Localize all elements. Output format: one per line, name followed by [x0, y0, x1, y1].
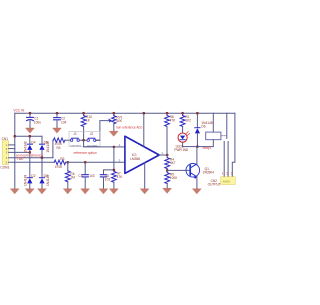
trimpot RV1 50K: [109, 113, 123, 131]
junction diode column1 top: [29, 135, 32, 138]
wire jumper node to pin2: [84, 140, 114, 147]
svg-text:50K: 50K: [116, 119, 123, 123]
LED LED1 PWR IND: [174, 131, 189, 152]
svg-text:D6: D6: [201, 125, 205, 129]
wire RV1 wiper to J2: [96, 121, 110, 141]
wire op-amp output: [159, 151, 167, 155]
junction pin8 on VCC rail: [143, 112, 146, 115]
wire pin4 V-: [144, 163, 146, 189]
junction R10 on VCC rail: [82, 112, 85, 115]
capacitor C2 104: [54, 113, 67, 128]
wire pin1: [9, 144, 15, 146]
svg-text:4K7: 4K7: [170, 161, 176, 165]
junction relay rail node: [196, 145, 199, 148]
resistor R4 470K: [53, 138, 70, 158]
svg-text:1: 1: [222, 172, 224, 176]
ground left column: [11, 189, 20, 194]
svg-text:AK500: AK500: [223, 180, 231, 183]
junction R7 node: [113, 169, 116, 172]
svg-text:J2: J2: [90, 132, 94, 136]
svg-text:1N4148: 1N4148: [24, 175, 28, 186]
capacitor C4 103: [100, 170, 114, 189]
junction R8 on VCC rail: [166, 112, 169, 115]
diode D4 1N4148: [24, 136, 36, 152]
diode D2 1N4148 lower: [24, 152, 36, 188]
svg-text:1M: 1M: [70, 176, 75, 180]
connector CN2 OUTPUT: [208, 177, 236, 187]
svg-text:D2: D2: [31, 174, 35, 178]
ground under op-amp: [140, 189, 149, 194]
wire ground rail y136: [15, 135, 42, 137]
svg-text:CON3: CON3: [0, 166, 9, 170]
label non reference ADJ: [116, 126, 143, 130]
box reference option: [69, 131, 100, 146]
junction pin2 node: [113, 146, 116, 149]
resistor R10 1K: [81, 113, 92, 140]
ground under R5: [163, 188, 172, 193]
resistor R7 47K: [112, 170, 124, 189]
label reference option: [74, 151, 97, 155]
ground under D3: [38, 189, 47, 194]
ground under C2: [53, 128, 62, 133]
junction jumper node: [82, 139, 85, 142]
junction output node: [166, 154, 169, 157]
wire pin4 to D5 and R4: [9, 157, 53, 159]
junction D6 on VCC rail: [196, 112, 199, 115]
svg-text:1K2: 1K2: [185, 119, 191, 123]
svg-text:100u: 100u: [34, 121, 41, 125]
wire pin2 into op-amp: [114, 143, 125, 147]
resistor R4 4K7 output: [165, 155, 176, 170]
capacitor C3 103: [78, 162, 94, 189]
svg-text:C3: C3: [78, 174, 82, 178]
resistor R3 470K: [54, 157, 68, 169]
svg-text:R3: R3: [60, 157, 64, 161]
label contact pins: [222, 172, 233, 176]
wire pin2: [9, 148, 15, 150]
ground under R7: [110, 189, 119, 194]
svg-text:J1: J1: [73, 132, 77, 136]
svg-text:1: 1: [161, 151, 163, 155]
wire base: [167, 169, 190, 171]
resistor R5 100K: [165, 170, 178, 188]
junction left column on gnd rail: [14, 135, 17, 138]
op-amp U1 LM358: [125, 136, 159, 173]
ground under C1: [26, 128, 35, 133]
junction pin3 node: [29, 151, 32, 154]
wire right rail drop: [232, 113, 235, 176]
ground under C4: [99, 189, 108, 194]
svg-text:CN1: CN1: [2, 137, 9, 141]
svg-text:2N3904: 2N3904: [203, 171, 214, 175]
wire LED to relay rail: [183, 146, 198, 148]
wire pin8 V+: [143, 113, 145, 146]
svg-text:LM358: LM358: [130, 157, 140, 161]
ground under C3: [81, 189, 90, 194]
junction C3 node: [84, 161, 87, 164]
relay actuator dashes: [221, 135, 226, 137]
connector CN1 CON3: [0, 137, 9, 170]
svg-text:D4: D4: [31, 140, 35, 144]
svg-text:relay1: relay1: [203, 146, 212, 150]
svg-text:VCC IN: VCC IN: [14, 109, 26, 113]
wire pin3 to D4: [9, 151, 30, 153]
relay contact common: [226, 113, 228, 138]
capacitor C1 100u: [27, 113, 42, 128]
node VCC IN label: [14, 109, 26, 113]
svg-text:connect: connect: [70, 143, 81, 147]
svg-text:1N4148: 1N4148: [46, 141, 50, 152]
svg-text:2: 2: [226, 172, 228, 176]
label on-board reference TBD: [16, 154, 43, 161]
svg-text:OUTPUT: OUTPUT: [208, 183, 221, 187]
diode D5 1N4148: [39, 136, 50, 158]
ground under RV1: [110, 131, 119, 136]
svg-text:R4: R4: [57, 146, 61, 150]
ground under Q1 emitter: [193, 189, 202, 194]
wire left VCC drop to ground column: [14, 113, 16, 189]
svg-text:3: 3: [119, 158, 121, 162]
svg-text:47K: 47K: [170, 119, 177, 123]
svg-text:TBD: TBD: [17, 157, 24, 161]
relay contact NC: [223, 142, 225, 177]
junction base node: [166, 169, 169, 172]
svg-text:47K: 47K: [117, 175, 124, 179]
svg-text:1K: 1K: [86, 119, 91, 123]
ground under R6: [64, 189, 73, 194]
jumper J1: [70, 132, 83, 147]
resistor R6 1M: [65, 162, 75, 189]
relay coil K1: [197, 113, 221, 150]
jumper J2: [85, 132, 100, 147]
relay contact NO: [227, 142, 229, 177]
resistor R2 1K2: [180, 113, 191, 133]
wire VCC top rail: [15, 112, 235, 114]
svg-text:1N4148: 1N4148: [24, 141, 28, 152]
svg-text:reference option: reference option: [74, 151, 97, 155]
wire pin2 vertical to R7 node: [113, 147, 115, 170]
junction C1 on VCC rail: [29, 112, 32, 115]
diode D6 1N4148 flyback: [195, 113, 213, 146]
diode D3 1N4148 lower: [39, 158, 50, 189]
junction pin4 node: [41, 156, 44, 159]
ground under D2: [26, 189, 35, 194]
svg-text:3: 3: [231, 172, 233, 176]
svg-text:104: 104: [61, 121, 67, 125]
junction C2 on VCC rail: [56, 112, 59, 115]
junction RV1 on VCC rail: [113, 112, 116, 115]
svg-text:470K: 470K: [55, 165, 63, 169]
junction R2 on VCC rail: [181, 112, 184, 115]
wire pin3 row: [68, 158, 125, 162]
resistor R8 47K pull-up: [165, 113, 177, 155]
svg-text:PWR IND: PWR IND: [174, 148, 189, 152]
junction R3/R6 node: [67, 161, 70, 164]
svg-text:1N4148: 1N4148: [46, 175, 50, 186]
svg-text:100K: 100K: [170, 176, 178, 180]
svg-text:non reference ADJ: non reference ADJ: [116, 126, 143, 130]
svg-text:103: 103: [89, 174, 95, 178]
svg-text:103: 103: [105, 178, 111, 182]
wire pin5 to R3: [9, 161, 55, 163]
transistor Q1 2N3904: [186, 147, 214, 189]
